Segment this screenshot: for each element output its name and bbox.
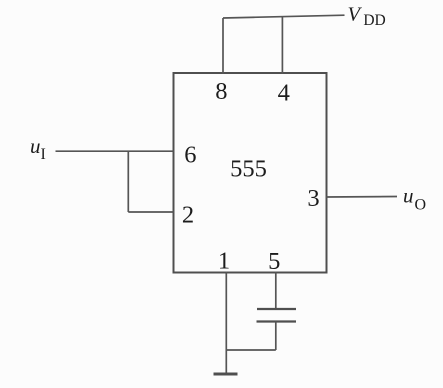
- svg-text:6: 6: [184, 142, 196, 169]
- svg-text:uI: uI: [30, 134, 46, 163]
- wire pin 5 down to capacitor: [275, 272, 277, 310]
- wire pin 1 down to ground: [225, 272, 227, 375]
- svg-text:8: 8: [215, 78, 227, 105]
- wire junction to pin 1 net: [226, 349, 275, 351]
- ground: [214, 373, 238, 376]
- wire VDD rail: [223, 15, 345, 18]
- svg-text:uO: uO: [403, 184, 426, 214]
- capacitor C top plate: [257, 308, 296, 310]
- wire pin 3 to uO: [326, 196, 397, 199]
- svg-text:1: 1: [218, 248, 230, 275]
- wire branch to pin 2: [128, 211, 174, 213]
- wire pin 4 to VDD rail: [281, 17, 283, 74]
- svg-text:4: 4: [278, 80, 290, 107]
- wire uI to pin 6: [56, 150, 175, 152]
- wire pin 8 to VDD rail: [222, 18, 224, 74]
- capacitor C bottom plate: [257, 320, 297, 322]
- svg-text:3: 3: [307, 185, 319, 212]
- svg-text:5: 5: [268, 248, 280, 275]
- wire branch vertical (pin6 net to pin2 net): [127, 151, 129, 212]
- IC U1 (555 timer) body: [174, 73, 327, 273]
- svg-text:2: 2: [182, 202, 194, 229]
- wire capacitor bottom to junction: [275, 322, 277, 351]
- svg-text:VDD: VDD: [348, 4, 386, 30]
- svg-text:555: 555: [230, 156, 267, 183]
